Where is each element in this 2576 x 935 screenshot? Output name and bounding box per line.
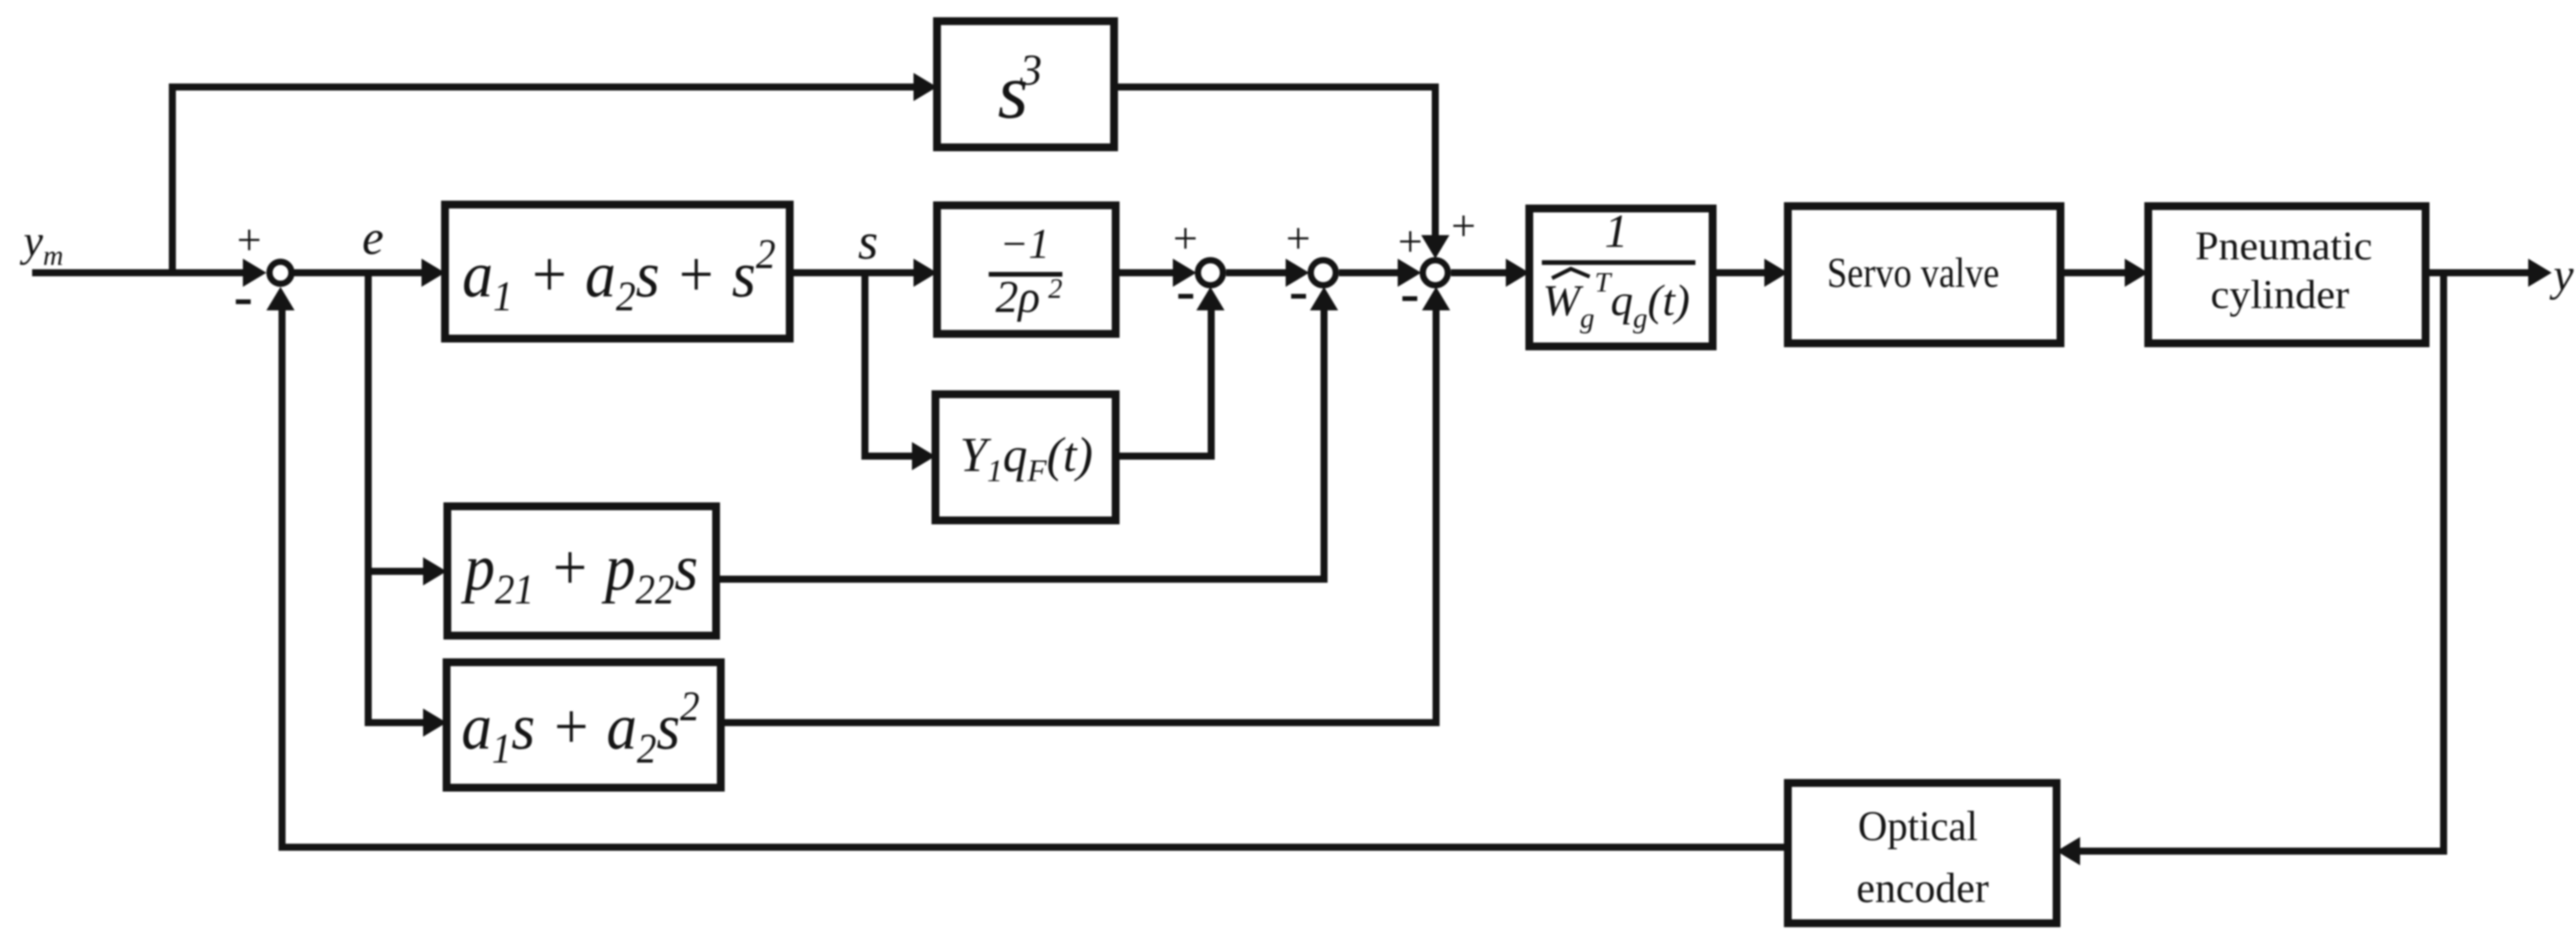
- arrowhead into pneumatic cylinder: [2125, 259, 2148, 287]
- arrowhead into s3: [914, 73, 937, 101]
- block Upsilon1 qF(t): [935, 394, 1116, 520]
- svg-text:encoder: encoder: [1857, 864, 1989, 911]
- wire servo valve to pneumatic cylinder: [2060, 270, 2128, 277]
- wire a1 block to -1/2rho2 block with node s: [790, 270, 917, 277]
- arrowhead into J3 left: [1398, 259, 1421, 287]
- wire -1/2rho2 out to J1: [1116, 270, 1174, 277]
- svg-text:e: e: [362, 212, 384, 265]
- svg-text:+: +: [1173, 215, 1198, 263]
- svg-text:+: +: [1286, 215, 1311, 263]
- arrowhead into optical encoder: [2057, 837, 2080, 865]
- wire branch down from e node: [368, 273, 428, 723]
- block servo valve: [1788, 206, 2060, 343]
- svg-text:Υ1qF(t): Υ1qF(t): [960, 429, 1093, 488]
- arrowhead into J0: [243, 259, 266, 287]
- wire optical encoder out to J0 feedback: [282, 310, 1788, 847]
- svg-text:s: s: [858, 213, 878, 270]
- svg-text:Optical: Optical: [1858, 803, 1978, 850]
- wire s3 out then down to J3: [1114, 87, 1435, 238]
- arrowhead into J2 bottom: [1310, 287, 1338, 310]
- wire J0 to block a1+a2s+s2 with node e: [293, 270, 425, 277]
- wire output branch down to feedback line: [2077, 273, 2444, 851]
- wire J3 to 1/W block: [1451, 270, 1507, 277]
- wire 1/W to servo valve: [1713, 270, 1767, 277]
- svg-text:3: 3: [1019, 46, 1042, 95]
- svg-text:1: 1: [1605, 205, 1628, 257]
- svg-text:y: y: [2549, 249, 2574, 300]
- svg-text:cylinder: cylinder: [2211, 273, 2350, 317]
- arrowhead into p21 block: [423, 557, 447, 585]
- arrowhead into a1 block: [421, 259, 445, 287]
- block a1+a2s+s2: [445, 205, 790, 339]
- arrowhead into -1/2rho2 block: [914, 259, 937, 287]
- svg-text:2ρ: 2ρ: [996, 271, 1040, 322]
- arrowhead into servo valve: [1764, 259, 1788, 287]
- arrowhead into J2 left: [1286, 259, 1309, 287]
- label minus J0: [236, 299, 251, 304]
- arrowhead into J0 bottom: [266, 287, 295, 310]
- wire main input from y_m to summer J0: [32, 270, 246, 277]
- arrowhead into J1 bottom: [1196, 287, 1225, 310]
- block -1/2rho2: [937, 205, 1116, 334]
- svg-text:+: +: [237, 216, 262, 265]
- svg-text:Servo valve: Servo valve: [1827, 249, 1999, 296]
- wire pneumatic cylinder to output y: [2426, 270, 2531, 277]
- arrowhead into J3 top: [1421, 235, 1449, 259]
- svg-text:WgTqg(t): WgTqg(t): [1543, 266, 1690, 334]
- arrowhead output y: [2528, 259, 2552, 287]
- summing junction J3: [1423, 260, 1448, 285]
- wire branch up to s3 block: [172, 87, 917, 276]
- block optical encoder: [1788, 783, 2057, 923]
- arrowhead into Upsilon block: [912, 442, 935, 470]
- summing junction J1: [1198, 260, 1223, 285]
- svg-text:+: +: [1451, 202, 1476, 251]
- svg-text:−1: −1: [1000, 220, 1049, 267]
- wire branch down from s node to Upsilon block: [865, 273, 915, 456]
- block p21+p22s: [447, 506, 716, 636]
- svg-text:2: 2: [1048, 273, 1062, 304]
- label minus J3: [1402, 296, 1417, 301]
- label minus J1: [1178, 294, 1193, 299]
- summing junction J2: [1311, 260, 1336, 285]
- arrowhead into a1s block: [423, 708, 447, 737]
- wire J2 to J3: [1339, 270, 1399, 277]
- block a1s+a2s2: [447, 662, 721, 788]
- block 1/W: [1529, 208, 1713, 346]
- arrowhead into 1/W block: [1506, 259, 1529, 287]
- wire J1 to J2: [1226, 270, 1287, 277]
- arrowhead into J3 bottom: [1422, 287, 1450, 310]
- label minus J2: [1291, 294, 1306, 299]
- summing junction J0: [270, 262, 291, 284]
- wire p21 out then up to J2: [716, 310, 1324, 579]
- hat over W: [1552, 269, 1590, 278]
- wire Upsilon out then up to J1: [1116, 310, 1211, 456]
- arrowhead into J1 left: [1173, 259, 1196, 287]
- svg-text:+: +: [1398, 218, 1423, 266]
- svg-text:Pneumatic: Pneumatic: [2195, 224, 2372, 269]
- wire a1s out then up to J3: [721, 310, 1436, 723]
- block pneumatic cylinder: [2148, 206, 2426, 343]
- block s3: [937, 21, 1114, 147]
- wire tee from e branch to p21 block: [368, 568, 428, 575]
